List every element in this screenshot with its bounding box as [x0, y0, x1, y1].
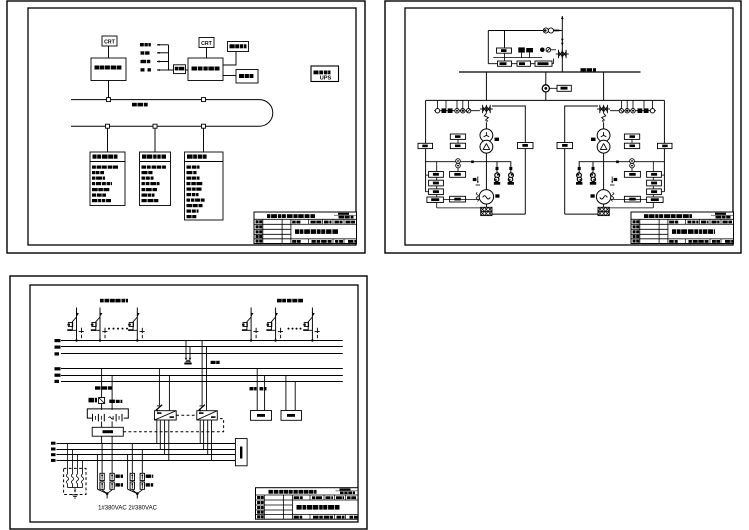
dashed test load box	[64, 468, 86, 494]
instrument drop wires	[438, 100, 469, 108]
signal label row 2	[141, 51, 145, 54]
aux cubicle box 4	[427, 197, 444, 203]
generator label 1F	[495, 194, 499, 197]
battery feed wire 2	[111, 376, 113, 410]
metering loop top wire	[488, 30, 543, 32]
unit bottom wire	[492, 213, 525, 215]
metering row2 box 2	[517, 61, 531, 66]
ring node tap square LCU1	[106, 124, 110, 128]
AC feeder branch 5	[266, 308, 283, 342]
insulation monitor drop wires	[185, 341, 187, 358]
wire transformer to generator	[485, 153, 487, 190]
station PT circle	[542, 85, 549, 92]
DC feeder group 2 breakers	[128, 444, 145, 499]
metering connector wire	[493, 57, 542, 59]
signal arrow line 3	[157, 60, 169, 62]
title block sheet1	[254, 212, 357, 244]
instrument dark block	[442, 108, 447, 113]
emergency lighting box 1	[251, 411, 272, 421]
lighting feed wires box3	[256, 369, 258, 411]
wire PT circle to cabinet	[549, 87, 557, 89]
20kV main busbar	[459, 71, 641, 73]
wire fuse to battery	[101, 404, 103, 410]
fiber optic ring network top wire	[71, 99, 260, 101]
metering loop left wire	[487, 31, 489, 64]
lighting feed wires box4	[285, 376, 287, 411]
DC busbar line 4	[57, 460, 236, 462]
wire CRT2 to comms server	[206, 48, 208, 59]
wire cluster to transformer	[485, 123, 487, 130]
DC busbar line 3	[57, 454, 236, 456]
wire row2 to cluster	[553, 59, 555, 64]
lighting fuse labels	[250, 387, 254, 390]
grounding transformer hatch box	[481, 207, 492, 215]
generator 1F circle	[479, 190, 493, 204]
svg-text:UPS: UPS	[320, 75, 332, 81]
generator brush squiggle	[476, 193, 478, 202]
wire generator to grounding transformer	[485, 204, 487, 207]
busbar voltage label	[581, 68, 586, 71]
wire between meter boxes	[457, 139, 459, 143]
wire ring to LCU3	[203, 128, 205, 152]
wire ring to LCU2	[154, 128, 156, 152]
emergency lighting box 2	[281, 411, 302, 421]
charger 2 switch label	[211, 361, 216, 364]
aux bottom wire to grounding	[437, 207, 481, 209]
storage battery bracket	[87, 409, 128, 418]
battery switch DK mark	[109, 400, 115, 403]
heading label emergency lighting group	[277, 299, 282, 303]
DC distribution panel box	[92, 427, 123, 436]
fuse heading label	[95, 386, 101, 389]
charger 2 feed wire a	[201, 341, 203, 406]
transformer meter box A	[450, 134, 465, 139]
insulation monitor ground	[186, 359, 190, 361]
instrument meter 4	[466, 109, 470, 113]
AC busbar A line 1	[61, 340, 343, 342]
DC feeder group 1 labels	[116, 475, 120, 478]
signal label row 1	[140, 43, 144, 46]
HV disconnector-breaker cluster	[480, 105, 493, 113]
aux cubicle box 1	[429, 172, 444, 178]
svg-text:1#380VAC 2#380VAC: 1#380VAC 2#380VAC	[98, 506, 157, 512]
wire bus to unit2	[603, 72, 605, 100]
charger 1 knife switch	[156, 405, 163, 412]
PT dark circle	[540, 48, 545, 53]
metering row2 box 3	[535, 61, 552, 66]
ring node tap square workstation	[107, 98, 111, 102]
transformer label 1B	[495, 138, 500, 141]
wire CVT to line	[554, 30, 563, 32]
DC busbar line 2	[57, 449, 236, 451]
generator transformer unit 1	[418, 100, 533, 215]
wire printer to comms server	[223, 75, 236, 77]
dashed control wire DC panel to charger2	[123, 419, 223, 432]
instrument lamp 1	[435, 109, 439, 113]
metering row2 wire	[488, 63, 553, 65]
aux cubicle box 3	[429, 189, 444, 195]
comms server CRT monitor 2	[199, 38, 214, 48]
AC busbar A line 3	[61, 353, 343, 355]
PT slashed circle	[546, 48, 551, 53]
generator CT wire	[426, 161, 512, 163]
incoming line arrow	[561, 16, 564, 72]
charger rectifier 2 box	[197, 411, 218, 420]
wire modem to comms server	[186, 69, 189, 71]
stub wire edge to aux box1	[426, 174, 429, 176]
wire box1 down	[504, 53, 506, 61]
aux cubicle column wire	[436, 162, 438, 208]
field breaker box	[450, 196, 466, 202]
CVT coupling circles	[543, 28, 553, 33]
charger 2 feed wire b	[206, 347, 208, 411]
battery fuse label	[89, 398, 95, 403]
operator workstation CRT monitor 1	[102, 36, 117, 46]
title block sheet3	[256, 488, 359, 520]
ring node tap square comms	[202, 98, 206, 102]
sheet 1 inner border frame	[28, 8, 356, 245]
battery feed wire 1	[101, 369, 103, 398]
station PT cabinet box	[557, 85, 571, 91]
line disconnector cluster upper	[556, 50, 569, 58]
sheet 2 outer border frame	[385, 1, 741, 253]
charger 1 feed wire b	[168, 376, 170, 411]
wire to modem	[169, 69, 174, 71]
DC feeder group 2 labels	[146, 475, 152, 478]
charger rectifier 1 box	[155, 411, 177, 420]
GPS clock box	[228, 42, 249, 52]
neutral arrester small	[473, 177, 480, 186]
AC feeder branch 3	[128, 308, 145, 342]
charger 2 output wires	[199, 420, 201, 444]
fuse drop wires	[522, 52, 530, 57]
modem box	[174, 65, 186, 74]
ring node tap square LCU2	[153, 124, 157, 128]
wires battery to DC panel	[101, 421, 103, 427]
metering row2 box 1	[498, 61, 512, 66]
battery fuse FU1	[99, 398, 105, 404]
sheet 3 outer border frame	[10, 276, 367, 529]
CT coil symbol	[456, 159, 461, 172]
wire ring to LCU1	[107, 128, 109, 152]
stub wire edge to aux box3	[426, 191, 429, 193]
generator transformer unit 2 (mirrored)	[557, 100, 672, 215]
line trap marks	[561, 39, 564, 46]
metering box 1	[497, 48, 512, 53]
surge arrester 1	[494, 162, 500, 185]
svg-text:CRT: CRT	[201, 41, 212, 47]
AC busbar A line 2	[61, 346, 343, 348]
instrument row wire	[434, 110, 480, 112]
operator workstation box	[91, 58, 126, 81]
DC bus coupler cabinet	[235, 439, 247, 466]
unit enclosure right edge wire	[492, 106, 525, 214]
AC busbar B line 3	[61, 381, 343, 383]
signal arrow line 1	[157, 44, 169, 46]
signal arrow line 4	[157, 69, 169, 71]
signal label row 3	[141, 60, 147, 63]
LCU2 cabinet box	[140, 152, 171, 206]
DC busbar line 1	[57, 443, 236, 445]
signal bus vertical wire	[168, 45, 170, 70]
wire GPS clock to comms server	[223, 52, 236, 66]
insulation monitor arrows	[185, 358, 188, 361]
drawout truck symbol	[484, 113, 488, 120]
communication server box	[188, 58, 223, 81]
fiber optic ring network bottom wire	[71, 125, 260, 127]
ring node tap square LCU3	[202, 124, 206, 128]
AC feeder branch 1	[67, 308, 84, 342]
charger 2 knife switch	[198, 405, 205, 412]
AC feeder branch 2	[91, 308, 108, 342]
storage battery cells	[93, 414, 123, 422]
dotted continuation left group	[108, 328, 110, 330]
dotted continuation right group	[288, 328, 290, 330]
DC feeder group 1 breakers	[97, 444, 114, 499]
AC busbar B line 2	[61, 375, 343, 377]
wire to metering box 1	[504, 31, 506, 49]
fuse block labels	[518, 47, 533, 52]
printer box	[236, 70, 258, 84]
aux cubicle box 2	[429, 180, 444, 186]
main transformer 1B HV winding	[480, 129, 493, 142]
wire bus to station PT	[545, 72, 547, 100]
wire PT to cluster	[551, 49, 556, 51]
wire CRT1 to workstation	[108, 46, 110, 58]
test load ground symbol	[72, 494, 78, 496]
wire bus to unit1	[485, 72, 487, 100]
charger 1 output wires	[156, 420, 158, 444]
unit enclosure left edge wire	[425, 100, 427, 191]
signal label row 4	[141, 68, 145, 71]
left edge terminal box	[418, 143, 433, 148]
instrument meter 2	[455, 109, 459, 113]
wire workstation to ring node	[108, 81, 110, 98]
AC feeder branch 6	[303, 308, 320, 342]
title block sheet2	[631, 212, 734, 244]
wires DC panel to DC bus	[101, 436, 103, 443]
wire field breaker to generator	[443, 198, 479, 200]
LCU3 cabinet box	[185, 152, 224, 220]
sheet 2 inner border frame	[405, 8, 733, 245]
instrument meter 3	[461, 109, 465, 113]
fiber ring right arc	[260, 100, 273, 127]
signal arrow line 2	[157, 52, 169, 54]
right edge terminal box	[518, 143, 534, 149]
charger 1 feed wire a	[158, 369, 160, 406]
AC feeder branch 4	[242, 308, 259, 342]
sheet 1 outer border frame	[7, 1, 365, 253]
svg-text:CRT: CRT	[104, 40, 115, 46]
AC busbar B line 1	[61, 368, 343, 370]
dashed control wire charger1 to charger2	[176, 414, 197, 416]
heading label charger group	[100, 299, 104, 303]
sheet 3 inner border frame	[30, 285, 358, 522]
transformer meter box B	[450, 143, 465, 148]
surge arrester 2	[508, 162, 514, 185]
units common tie wire	[426, 99, 665, 101]
ring network label	[132, 103, 137, 107]
battery switch label	[116, 400, 120, 403]
LCU1 cabinet box	[90, 152, 125, 206]
junction node square	[471, 161, 474, 164]
test load resistor wires	[66, 444, 83, 493]
excitation transformer box	[450, 172, 466, 178]
UPS power box	[311, 66, 339, 82]
main transformer 1B LV winding	[480, 140, 493, 153]
